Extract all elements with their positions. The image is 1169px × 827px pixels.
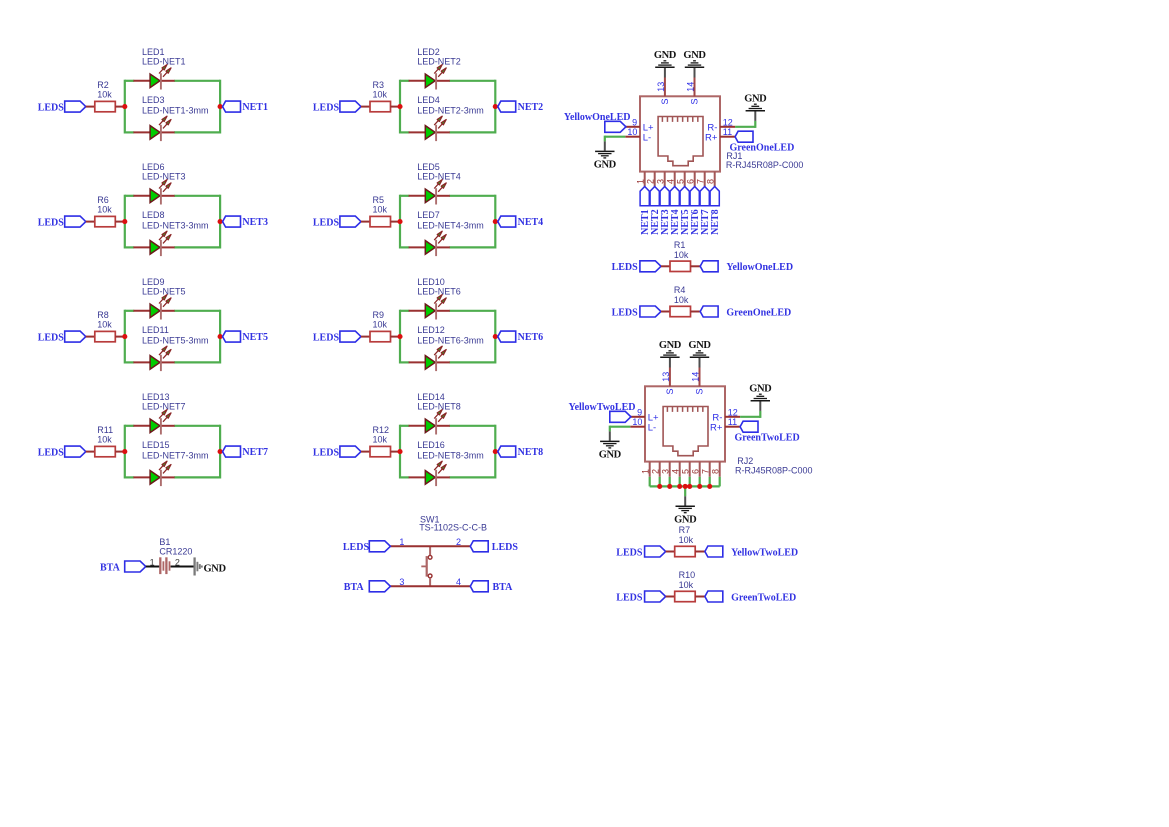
wire B1 pin 2 to ground	[171, 566, 194, 568]
svg-text:7: 7	[700, 469, 710, 474]
resistor R9	[370, 310, 391, 342]
wire net NET8 parallel loop	[400, 425, 495, 479]
pin 12 (R-) of RJ2	[712, 408, 740, 424]
port GreenOneLED	[700, 306, 791, 318]
wire LEDS to R5	[361, 221, 371, 223]
wire bottom pins of RJ2 to ground bus	[650, 477, 720, 496]
svg-text:NET8: NET8	[710, 209, 721, 235]
junction node right of NET5 loop	[218, 334, 223, 339]
resistor R12	[370, 425, 391, 457]
wire SW1 pin3 to pin4	[390, 585, 470, 587]
junction node right of NET1 loop	[218, 104, 223, 109]
wire SW1 pin1 to pin2	[390, 545, 470, 547]
port LEDS (R1 row)	[612, 261, 661, 273]
port NET1	[640, 187, 651, 235]
ground above pin 12 of RJ2	[749, 383, 772, 411]
wire LEDS to R3	[361, 106, 371, 108]
junction node left of NET5 loop	[122, 334, 127, 339]
svg-text:R6: R6	[97, 195, 109, 205]
port YellowTwoLED	[568, 402, 635, 422]
svg-text:S: S	[695, 388, 705, 394]
svg-text:LEDS: LEDS	[38, 217, 65, 228]
svg-text:GreenOneLED: GreenOneLED	[726, 307, 791, 318]
svg-text:LED-NET1: LED-NET1	[142, 57, 186, 67]
port NET5	[223, 331, 268, 343]
svg-text:NET3: NET3	[242, 217, 268, 228]
svg-text:R3: R3	[373, 80, 385, 90]
svg-text:13: 13	[656, 82, 666, 92]
svg-text:14: 14	[686, 82, 696, 92]
svg-text:LED5: LED5	[417, 162, 440, 172]
wire R2 to node	[115, 106, 125, 108]
LED LED6	[133, 162, 185, 204]
svg-text:10k: 10k	[674, 250, 689, 260]
svg-text:10k: 10k	[97, 435, 112, 445]
svg-text:LED-NET3-3mm: LED-NET3-3mm	[142, 220, 209, 230]
wire R12 to node	[391, 451, 401, 453]
LED LED2	[409, 47, 461, 89]
svg-text:R11: R11	[97, 425, 113, 435]
port NET3	[223, 216, 268, 228]
svg-text:LEDS: LEDS	[612, 307, 639, 318]
resistor R7	[675, 525, 696, 557]
pin 2 of RJ1	[645, 172, 655, 187]
port LEDS (SW1 right)	[470, 541, 518, 553]
svg-text:R8: R8	[97, 310, 109, 320]
label RJ2 refdes	[735, 456, 813, 476]
svg-text:8: 8	[710, 469, 720, 474]
svg-text:2: 2	[650, 469, 660, 474]
svg-text:2: 2	[645, 179, 655, 184]
pin 6 of RJ1	[685, 172, 695, 187]
svg-text:L-: L-	[648, 423, 656, 434]
pin 3 of RJ1	[655, 172, 665, 187]
ground above pin 12 of RJ1	[744, 93, 767, 121]
svg-text:BTA: BTA	[100, 562, 121, 573]
svg-text:R12: R12	[373, 425, 390, 435]
svg-text:NET1: NET1	[242, 102, 268, 113]
pin 10 (L-) of RJ2	[630, 417, 656, 433]
svg-text:10k: 10k	[373, 90, 388, 100]
wire R7 to YellowTwoLED	[695, 551, 705, 553]
port LEDS (R7 row)	[616, 546, 665, 558]
svg-text:GND: GND	[654, 50, 677, 61]
svg-text:S: S	[665, 388, 675, 394]
pin 5 of RJ2	[680, 462, 690, 477]
port NET4	[498, 216, 543, 228]
svg-text:R-RJ45R08P-C000: R-RJ45R08P-C000	[726, 160, 804, 170]
port YellowOneLED	[564, 112, 631, 132]
svg-text:R7: R7	[679, 525, 691, 535]
svg-text:LED11: LED11	[142, 325, 169, 335]
pin 11 (R+) of RJ2	[710, 417, 740, 433]
svg-text:GreenOneLED: GreenOneLED	[730, 143, 795, 154]
port NET6	[690, 187, 701, 235]
port NET8	[710, 187, 721, 235]
svg-text:LEDS: LEDS	[612, 262, 639, 273]
junction node left of NET4 loop	[397, 219, 402, 224]
LED LED16	[409, 440, 484, 486]
junction node left of NET8 loop	[397, 449, 402, 454]
svg-text:LED8: LED8	[142, 210, 165, 220]
svg-text:GND: GND	[659, 340, 682, 351]
svg-text:GND: GND	[683, 50, 706, 61]
wire LEDS to R7	[666, 551, 675, 553]
pin 1 of RJ2	[640, 462, 650, 477]
svg-text:10k: 10k	[679, 580, 694, 590]
svg-text:LEDS: LEDS	[313, 332, 340, 343]
svg-text:GND: GND	[688, 340, 711, 351]
wire net NET7 parallel loop	[125, 425, 220, 479]
port NET8	[498, 446, 543, 458]
svg-text:10k: 10k	[679, 535, 694, 545]
svg-text:10: 10	[632, 417, 642, 427]
junction node left of NET3 loop	[122, 219, 127, 224]
svg-text:12: 12	[723, 118, 733, 128]
pin 7 of RJ1	[695, 172, 705, 187]
svg-text:GND: GND	[594, 160, 617, 171]
wire pin12 to ground	[740, 411, 760, 418]
svg-text:LED15: LED15	[142, 440, 170, 450]
wire R10 to GreenTwoLED	[695, 596, 705, 598]
svg-text:6: 6	[685, 179, 695, 184]
port LEDS (NET7 block)	[38, 446, 86, 458]
LED LED5	[409, 162, 461, 204]
svg-text:NET4: NET4	[518, 217, 544, 228]
pin 4 of RJ2	[670, 462, 680, 477]
svg-text:10k: 10k	[97, 205, 112, 215]
junction node right of NET2 loop	[493, 104, 498, 109]
wire LEDS to R9	[361, 336, 371, 338]
svg-text:14: 14	[691, 372, 701, 382]
pin 11 (R+) of RJ1	[705, 127, 735, 143]
svg-text:8: 8	[705, 179, 715, 184]
svg-text:LED-NET3: LED-NET3	[142, 172, 186, 182]
svg-text:LEDS: LEDS	[492, 542, 519, 553]
resistor R3	[370, 80, 391, 112]
svg-text:LED-NET7: LED-NET7	[142, 402, 186, 412]
svg-text:GND: GND	[744, 93, 767, 104]
svg-text:GND: GND	[749, 383, 772, 394]
svg-text:LED-NET4-3mm: LED-NET4-3mm	[417, 220, 484, 230]
svg-text:6: 6	[690, 469, 700, 474]
svg-text:LEDS: LEDS	[38, 447, 65, 458]
port LEDS (NET5 block)	[38, 331, 86, 343]
svg-text:S: S	[690, 98, 700, 104]
wire LEDS to R4	[661, 311, 670, 313]
svg-text:LEDS: LEDS	[313, 447, 340, 458]
svg-text:R10: R10	[679, 570, 696, 580]
svg-text:R4: R4	[674, 285, 686, 295]
junction node left of NET6 loop	[397, 334, 402, 339]
svg-text:11: 11	[723, 127, 732, 137]
wire R1 to YellowOneLED	[691, 265, 701, 267]
svg-text:L-: L-	[643, 133, 651, 144]
pin 13 (S) of RJ1	[656, 78, 670, 105]
svg-text:GND: GND	[599, 450, 622, 461]
port LEDS (NET4 block)	[313, 216, 361, 228]
wire BTA to B1 pin 1	[146, 566, 159, 568]
port GreenTwoLED	[705, 591, 796, 603]
pin 9 (L+) of RJ2	[631, 408, 659, 424]
wire net NET4 parallel loop	[400, 195, 495, 249]
pin 7 of RJ2	[700, 462, 710, 477]
port BTA (SW1 right)	[470, 581, 513, 593]
svg-text:LED9: LED9	[142, 277, 165, 287]
svg-text:LEDS: LEDS	[616, 592, 643, 603]
svg-text:1: 1	[635, 179, 645, 184]
ground below pin 10 of RJ1	[594, 141, 617, 170]
port BTA (battery)	[100, 561, 146, 573]
junction dots on ground bus of RJ2	[657, 484, 712, 489]
svg-text:LED13: LED13	[142, 392, 170, 402]
wire net NET1 parallel loop	[125, 80, 220, 134]
svg-text:LED10: LED10	[417, 277, 445, 287]
wire pin10 to ground	[605, 136, 626, 142]
svg-text:10k: 10k	[97, 90, 112, 100]
svg-text:10k: 10k	[373, 205, 388, 215]
LED LED7	[409, 210, 484, 256]
LED LED14	[409, 392, 461, 434]
svg-text:LED-NET4: LED-NET4	[417, 172, 461, 182]
ground right of B1 (rotated)	[195, 557, 227, 575]
connector RJ2 body	[645, 386, 725, 461]
svg-text:4: 4	[665, 179, 675, 184]
svg-text:YellowOneLED: YellowOneLED	[726, 262, 793, 273]
svg-text:GreenTwoLED: GreenTwoLED	[731, 592, 796, 603]
svg-text:10: 10	[627, 127, 637, 137]
svg-text:BTA: BTA	[493, 582, 514, 593]
svg-text:LED2: LED2	[417, 47, 440, 57]
svg-text:LED-NET6: LED-NET6	[417, 287, 461, 297]
wire LEDS to R2	[86, 106, 96, 108]
junction node right of NET6 loop	[493, 334, 498, 339]
wire R4 to GreenOneLED	[691, 311, 701, 313]
svg-text:LED-NET2: LED-NET2	[417, 57, 461, 67]
wire LEDS to R1	[661, 265, 670, 267]
svg-text:R1: R1	[674, 240, 686, 250]
svg-text:YellowTwoLED: YellowTwoLED	[731, 547, 798, 558]
port LEDS (NET8 block)	[313, 446, 361, 458]
pin 8 of RJ2	[710, 462, 720, 477]
wire R8 to node	[115, 336, 125, 338]
svg-text:R2: R2	[97, 80, 109, 90]
battery B1 CR1220	[150, 537, 193, 574]
svg-text:LED-NET5-3mm: LED-NET5-3mm	[142, 335, 209, 345]
svg-text:LED-NET7-3mm: LED-NET7-3mm	[142, 450, 209, 460]
port NET5	[680, 187, 691, 235]
svg-text:RJ2: RJ2	[737, 456, 753, 466]
connector RJ1 body	[640, 96, 720, 171]
wire R5 to node	[391, 221, 401, 223]
resistor R6	[95, 195, 116, 227]
pin 10 (L-) of RJ1	[625, 127, 651, 143]
port GreenTwoLED	[735, 421, 800, 443]
wire LEDS to R6	[86, 221, 96, 223]
ground above pin 13 of RJ2	[659, 340, 682, 368]
pin 2 of RJ2	[650, 462, 660, 477]
ground below RJ2	[674, 496, 697, 525]
ground above pin 14 of RJ2	[688, 340, 711, 368]
svg-text:R+: R+	[705, 133, 718, 144]
switch SW1 TS-1102S-C-C-B	[399, 514, 487, 587]
svg-text:GreenTwoLED: GreenTwoLED	[735, 433, 800, 444]
pin 6 of RJ2	[690, 462, 700, 477]
pin 9 (L+) of RJ1	[626, 118, 654, 134]
svg-text:LED-NET5: LED-NET5	[142, 287, 186, 297]
wire pin10 to ground	[610, 426, 631, 432]
port NET7	[223, 446, 268, 458]
svg-text:LED-NET8-3mm: LED-NET8-3mm	[417, 450, 484, 460]
port YellowOneLED	[700, 261, 793, 273]
svg-text:LED-NET2-3mm: LED-NET2-3mm	[417, 105, 484, 115]
svg-text:4: 4	[670, 469, 680, 474]
svg-text:CR1220: CR1220	[159, 546, 192, 556]
svg-text:LED14: LED14	[417, 392, 445, 402]
svg-text:R-RJ45R08P-C000: R-RJ45R08P-C000	[735, 465, 813, 475]
svg-text:10k: 10k	[373, 320, 388, 330]
svg-text:12: 12	[728, 408, 738, 418]
LED LED10	[409, 277, 461, 319]
resistor R2	[95, 80, 116, 112]
wire net NET3 parallel loop	[125, 195, 220, 249]
port NET3	[660, 187, 671, 235]
svg-text:LEDS: LEDS	[313, 102, 340, 113]
pin 8 of RJ1	[705, 172, 715, 187]
svg-text:10k: 10k	[373, 435, 388, 445]
svg-text:NET2: NET2	[518, 102, 544, 113]
svg-text:BTA: BTA	[344, 582, 365, 593]
svg-text:GND: GND	[674, 515, 697, 526]
port YellowTwoLED	[705, 546, 798, 558]
pin 5 of RJ1	[675, 172, 685, 187]
svg-text:7: 7	[695, 179, 705, 184]
junction node left of NET7 loop	[122, 449, 127, 454]
LED LED8	[133, 210, 208, 256]
pin 14 (S) of RJ2	[691, 368, 705, 395]
port GreenOneLED	[730, 131, 795, 153]
port LEDS (NET2 block)	[313, 101, 361, 113]
svg-text:LEDS: LEDS	[313, 217, 340, 228]
svg-text:1: 1	[640, 469, 650, 474]
svg-text:NET5: NET5	[242, 332, 268, 343]
port LEDS (SW1 left)	[343, 541, 391, 553]
port NET1	[223, 101, 268, 113]
wire LEDS to R11	[86, 451, 96, 453]
svg-text:NET6: NET6	[518, 332, 544, 343]
junction node right of NET4 loop	[493, 219, 498, 224]
wire pin12 to ground	[735, 121, 755, 128]
LED LED3	[133, 95, 208, 141]
port NET2	[498, 101, 543, 113]
wire net NET2 parallel loop	[400, 80, 495, 134]
resistor R11	[95, 425, 116, 457]
wire LEDS to R8	[86, 336, 96, 338]
resistor R10	[675, 570, 696, 602]
port NET7	[700, 187, 711, 235]
svg-text:NET7: NET7	[242, 447, 268, 458]
wire R3 to node	[391, 106, 401, 108]
port NET4	[670, 187, 681, 235]
LED LED12	[409, 325, 484, 371]
svg-text:LED16: LED16	[417, 440, 445, 450]
svg-text:LED-NET1-3mm: LED-NET1-3mm	[142, 105, 209, 115]
port LEDS (R4 row)	[612, 306, 661, 318]
port LEDS (R10 row)	[616, 591, 665, 603]
svg-text:5: 5	[680, 469, 690, 474]
svg-text:GND: GND	[204, 563, 227, 574]
svg-text:5: 5	[675, 179, 685, 184]
port LEDS (NET3 block)	[38, 216, 86, 228]
resistor R1	[670, 240, 691, 272]
junction node right of NET8 loop	[493, 449, 498, 454]
svg-text:LED-NET6-3mm: LED-NET6-3mm	[417, 335, 484, 345]
port LEDS (NET1 block)	[38, 101, 86, 113]
port BTA (SW1 left)	[344, 581, 391, 593]
LED LED11	[133, 325, 208, 371]
wire net NET6 parallel loop	[400, 310, 495, 364]
svg-text:LED3: LED3	[142, 95, 165, 105]
wire net NET5 parallel loop	[125, 310, 220, 364]
svg-text:NET8: NET8	[518, 447, 544, 458]
LED LED15	[133, 440, 208, 486]
pin 3 of RJ2	[660, 462, 670, 477]
svg-text:LED-NET8: LED-NET8	[417, 402, 461, 412]
wire LEDS to R12	[361, 451, 371, 453]
pin 14 (S) of RJ1	[686, 78, 700, 105]
svg-text:LEDS: LEDS	[343, 542, 370, 553]
svg-text:TS-1102S-C-C-B: TS-1102S-C-C-B	[419, 523, 487, 533]
svg-text:R9: R9	[373, 310, 385, 320]
svg-text:LED7: LED7	[417, 210, 440, 220]
port LEDS (NET6 block)	[313, 331, 361, 343]
resistor R8	[95, 310, 116, 342]
svg-text:3: 3	[660, 469, 670, 474]
svg-text:LEDS: LEDS	[38, 332, 65, 343]
junction node left of NET1 loop	[122, 104, 127, 109]
junction node right of NET3 loop	[218, 219, 223, 224]
port NET2	[650, 187, 661, 235]
svg-text:10k: 10k	[97, 320, 112, 330]
ground below pin 10 of RJ2	[599, 431, 622, 460]
LED LED13	[133, 392, 185, 434]
resistor R4	[670, 285, 691, 316]
wire R11 to node	[115, 451, 125, 453]
label RJ1 refdes	[726, 151, 804, 170]
svg-text:B1: B1	[159, 537, 170, 547]
pin 12 (R-) of RJ1	[707, 118, 735, 134]
pin 1 of RJ1	[635, 172, 645, 187]
ground above pin 14 of RJ1	[683, 50, 706, 78]
svg-text:S: S	[660, 98, 670, 104]
svg-text:10k: 10k	[674, 295, 689, 305]
wire R6 to node	[115, 221, 125, 223]
pin 4 of RJ1	[665, 172, 675, 187]
svg-text:LEDS: LEDS	[38, 102, 65, 113]
svg-text:R5: R5	[373, 195, 385, 205]
junction node left of NET2 loop	[397, 104, 402, 109]
svg-text:LED6: LED6	[142, 162, 165, 172]
svg-text:3: 3	[655, 179, 665, 184]
pin 13 (S) of RJ2	[661, 368, 675, 395]
svg-text:11: 11	[728, 417, 737, 427]
ground above pin 13 of RJ1	[654, 50, 677, 78]
svg-text:R+: R+	[710, 423, 723, 434]
wire R9 to node	[391, 336, 401, 338]
junction node right of NET7 loop	[218, 449, 223, 454]
wire LEDS to R10	[666, 596, 675, 598]
svg-text:LED12: LED12	[417, 325, 445, 335]
